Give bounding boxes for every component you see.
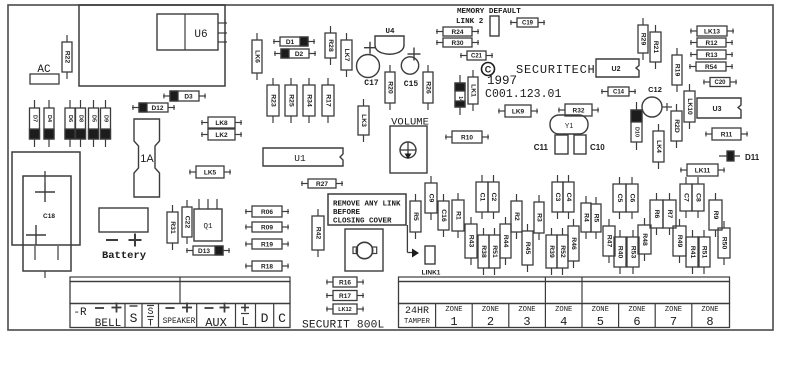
capacitor C15	[401, 48, 420, 90]
resistor R09	[245, 222, 289, 232]
svg-text:C17: C17	[364, 79, 379, 88]
svg-text:C8: C8	[695, 193, 702, 202]
link LK7	[341, 33, 352, 77]
resistor R49	[673, 219, 686, 263]
IC U2	[596, 59, 639, 77]
svg-text:R21: R21	[652, 41, 659, 54]
svg-text:R28: R28	[327, 39, 334, 52]
diode D12	[132, 103, 175, 112]
fuse F1 1A	[134, 119, 160, 197]
resistor R2	[511, 194, 522, 239]
diode D14	[455, 75, 465, 115]
svg-text:Q1: Q1	[203, 223, 213, 231]
svg-text:R12: R12	[706, 40, 718, 47]
IC U6	[157, 14, 227, 50]
capacitor C2	[488, 175, 499, 219]
crystal Y1	[550, 115, 588, 134]
svg-text:U6: U6	[194, 29, 207, 41]
capacitor C3	[552, 175, 563, 219]
svg-text:MEMORY DEFAULT: MEMORY DEFAULT	[457, 8, 521, 16]
svg-text:LK8: LK8	[215, 120, 228, 127]
resistor R41	[686, 230, 699, 274]
svg-text:LK9: LK9	[512, 108, 525, 115]
svg-text:LINK 2: LINK 2	[456, 18, 484, 26]
capacitor C16	[438, 194, 449, 237]
svg-text:C18: C18	[43, 213, 55, 220]
svg-text:C3: C3	[554, 193, 561, 202]
svg-text:R26: R26	[425, 81, 432, 94]
resistor R30	[436, 38, 479, 47]
svg-text:D6: D6	[67, 115, 73, 122]
svg-text:SPEAKER: SPEAKER	[163, 318, 196, 326]
label SECURIT 800L	[302, 320, 384, 332]
terminal block zones	[399, 277, 730, 328]
svg-text:R38: R38	[480, 245, 487, 258]
capacitor C4	[563, 175, 574, 219]
diode D5	[89, 100, 99, 147]
resistor R18	[245, 261, 289, 271]
svg-text:C6: C6	[629, 194, 636, 203]
capacitor C6	[626, 177, 638, 219]
capacitor C11	[534, 135, 568, 154]
link LK11	[680, 164, 725, 176]
svg-text:C5: C5	[616, 194, 623, 203]
svg-text:CLOSING COVER: CLOSING COVER	[333, 218, 392, 226]
svg-text:D3: D3	[184, 93, 193, 100]
AC terminal block	[30, 74, 59, 84]
svg-text:D4: D4	[46, 115, 52, 123]
diode D11	[719, 151, 760, 162]
svg-text:R44: R44	[502, 235, 509, 248]
label VOLUME	[391, 117, 429, 129]
capacitor C14	[601, 87, 636, 96]
svg-text:D12: D12	[152, 105, 164, 112]
resistor R45	[522, 224, 533, 272]
link LK13	[690, 26, 734, 36]
svg-text:R43: R43	[468, 235, 475, 248]
svg-text:5: 5	[597, 315, 604, 329]
svg-text:C12: C12	[648, 85, 662, 94]
resistor R22	[62, 35, 72, 79]
IC U3	[697, 98, 741, 118]
label C001.123.01	[485, 88, 562, 101]
svg-text:REMOVE ANY LINK: REMOVE ANY LINK	[333, 201, 401, 209]
terminal labels bell/speaker/aux	[73, 303, 286, 331]
svg-text:LK2: LK2	[215, 132, 228, 139]
svg-text:S: S	[130, 311, 138, 326]
resistor R26	[423, 65, 433, 110]
svg-text:R54: R54	[705, 64, 717, 71]
IC U1	[263, 148, 343, 166]
svg-text:R34: R34	[306, 94, 313, 107]
svg-text:R19: R19	[261, 241, 273, 248]
resistor R3	[534, 195, 544, 240]
svg-text:C11: C11	[534, 143, 549, 152]
resistor R6	[650, 193, 663, 235]
svg-text:D5: D5	[91, 115, 97, 122]
resistor R12	[690, 38, 733, 47]
diode D3	[163, 91, 206, 101]
svg-text:R39: R39	[548, 245, 555, 258]
link LINK1	[407, 225, 440, 277]
terminal labels zones	[404, 306, 719, 329]
svg-text:C4: C4	[565, 193, 572, 202]
svg-text:R50: R50	[721, 237, 728, 250]
link LK12	[326, 304, 364, 314]
capacitor C22	[182, 200, 192, 244]
capacitor C1	[476, 175, 488, 219]
svg-text:T: T	[147, 319, 153, 330]
resistor R2D	[671, 104, 682, 148]
resistor R54	[689, 62, 733, 71]
resistor R25	[285, 78, 297, 123]
copyright symbol	[482, 63, 495, 76]
svg-text:3: 3	[523, 315, 530, 329]
resistor R51	[489, 228, 500, 275]
resistor R28	[325, 26, 336, 65]
svg-text:R27: R27	[316, 181, 328, 188]
svg-text:R32: R32	[573, 107, 585, 114]
label MEMORY DEFAULT	[457, 8, 521, 16]
svg-text:6: 6	[633, 315, 640, 329]
terminal block bell/speaker/aux	[70, 277, 290, 328]
resistor R50	[718, 221, 730, 265]
resistor R4	[581, 196, 591, 239]
svg-text:LK3: LK3	[360, 114, 367, 127]
resistor R55	[698, 230, 710, 274]
diode D2	[274, 49, 316, 58]
diode D8	[76, 100, 86, 147]
svg-text:C: C	[485, 65, 492, 75]
svg-text:-R: -R	[73, 307, 87, 319]
svg-text:ZONE: ZONE	[555, 306, 572, 314]
svg-text:LK12: LK12	[338, 307, 351, 313]
svg-text:R13: R13	[706, 52, 718, 59]
resistor R43	[465, 217, 477, 265]
svg-text:R41: R41	[689, 246, 696, 259]
resistor R52	[557, 228, 568, 275]
svg-text:R19: R19	[674, 64, 681, 77]
resistor R32	[558, 104, 599, 116]
resistor R34	[303, 78, 315, 123]
svg-text:1A: 1A	[140, 153, 154, 165]
svg-text:R7: R7	[666, 210, 673, 219]
svg-text:R3: R3	[536, 213, 543, 222]
svg-text:R2: R2	[513, 212, 520, 221]
svg-text:R49: R49	[676, 235, 683, 248]
svg-text:LK7: LK7	[343, 49, 350, 62]
resistor R13	[690, 50, 733, 59]
svg-text:R9: R9	[712, 211, 719, 220]
svg-text:D8: D8	[78, 115, 84, 122]
svg-text:C10: C10	[590, 143, 605, 152]
svg-text:Y1: Y1	[565, 123, 574, 130]
capacitor C21	[460, 51, 493, 60]
diode D7	[30, 100, 40, 147]
svg-text:7: 7	[670, 315, 677, 329]
resistor R11	[705, 128, 748, 140]
link LK8	[201, 117, 242, 128]
resistor R42	[312, 209, 324, 257]
svg-text:1: 1	[450, 315, 457, 329]
link LK5	[189, 166, 231, 178]
svg-text:1997: 1997	[487, 74, 517, 88]
svg-text:R22: R22	[64, 51, 71, 64]
svg-text:ZONE: ZONE	[592, 306, 609, 314]
svg-text:LK11: LK11	[695, 167, 711, 174]
capacitor C19	[510, 18, 545, 27]
resistor R46	[568, 219, 579, 268]
resistor R29	[638, 18, 648, 60]
svg-text:AUX: AUX	[205, 316, 227, 330]
svg-text:24HR: 24HR	[405, 306, 429, 317]
regulator U4	[375, 28, 404, 54]
capacitor C7	[680, 177, 692, 218]
capacitor C8	[692, 177, 704, 218]
AC terminal label	[37, 64, 51, 76]
resistor R44	[500, 217, 511, 265]
svg-text:SECURITECH: SECURITECH	[516, 63, 596, 77]
capacitor C10	[574, 135, 605, 154]
svg-text:ZONE: ZONE	[628, 306, 645, 314]
svg-text:ZONE: ZONE	[518, 306, 535, 314]
svg-text:LK13: LK13	[704, 28, 720, 35]
svg-text:SECURIT 800L: SECURIT 800L	[302, 320, 384, 332]
svg-text:Battery: Battery	[102, 250, 147, 262]
svg-text:R09: R09	[261, 224, 273, 231]
resistor R1	[452, 193, 464, 238]
svg-text:C15: C15	[404, 80, 419, 89]
svg-text:R45: R45	[524, 242, 531, 255]
transformer block	[79, 5, 225, 86]
resistor R10	[445, 131, 489, 143]
diode D13	[186, 246, 230, 255]
svg-text:4: 4	[560, 315, 567, 329]
diode D1	[273, 37, 315, 46]
svg-text:R23: R23	[270, 94, 277, 107]
svg-text:LK5: LK5	[204, 169, 217, 176]
link LK10	[684, 84, 695, 129]
svg-text:R51: R51	[491, 245, 498, 258]
svg-text:R40: R40	[617, 246, 624, 259]
resistor R5	[410, 194, 421, 239]
svg-text:R24: R24	[452, 29, 464, 36]
svg-text:R18: R18	[261, 263, 273, 270]
svg-text:R47: R47	[606, 235, 613, 248]
svg-text:ZONE: ZONE	[701, 306, 718, 314]
svg-text:R4: R4	[583, 213, 590, 222]
potentiometer VR1	[390, 126, 427, 173]
svg-text:TAMPER: TAMPER	[404, 318, 431, 326]
svg-text:R17: R17	[339, 293, 351, 300]
svg-text:LK10: LK10	[686, 98, 693, 115]
svg-text:D2: D2	[295, 51, 304, 58]
resistor R06	[245, 206, 289, 217]
svg-text:D10: D10	[634, 127, 640, 137]
transistor Q1	[194, 199, 222, 241]
resistor R20	[385, 65, 395, 110]
diode D6	[65, 100, 75, 147]
capacitor C12	[642, 85, 672, 117]
link LK3	[358, 99, 369, 142]
diode D9	[101, 100, 111, 147]
svg-text:C14: C14	[613, 90, 625, 96]
link LK9	[498, 105, 538, 117]
svg-text:2: 2	[487, 315, 494, 329]
svg-text:D7: D7	[32, 115, 38, 122]
link LK6	[252, 33, 262, 80]
svg-text:R16: R16	[339, 279, 351, 286]
svg-text:C21: C21	[471, 54, 483, 60]
svg-text:U3: U3	[713, 106, 722, 113]
resistor R19	[672, 48, 682, 92]
resistor R16	[326, 277, 364, 287]
capacitor C9	[425, 176, 437, 220]
label SECURITECH	[516, 63, 596, 77]
link LINK2 jumper	[490, 16, 499, 36]
svg-text:D: D	[261, 311, 269, 326]
resistor R27	[301, 179, 343, 188]
resistor R40	[614, 230, 626, 274]
svg-text:ZONE: ZONE	[482, 306, 499, 314]
svg-text:ZONE: ZONE	[445, 306, 462, 314]
svg-text:C001.123.01: C001.123.01	[485, 88, 562, 101]
svg-text:C1: C1	[479, 193, 486, 202]
capacitor C20	[703, 78, 737, 87]
warning text box	[328, 194, 406, 226]
svg-text:R10: R10	[461, 134, 473, 141]
resistor R9	[709, 193, 722, 237]
sounder LS1	[345, 229, 383, 271]
svg-text:R42: R42	[315, 227, 322, 240]
svg-text:C: C	[278, 311, 286, 326]
svg-text:U2: U2	[612, 66, 621, 73]
resistor R39	[546, 228, 557, 275]
resistor R31	[167, 205, 178, 250]
svg-text:C2: C2	[490, 193, 497, 202]
link LK4	[653, 124, 664, 169]
svg-text:8: 8	[706, 315, 713, 329]
resistor R17	[326, 291, 364, 301]
svg-text:D9: D9	[103, 115, 109, 122]
svg-text:U1: U1	[294, 153, 306, 164]
capacitor C17	[357, 42, 380, 88]
svg-text:D1: D1	[286, 39, 295, 46]
svg-text:LK4: LK4	[655, 140, 662, 153]
svg-text:R06: R06	[261, 209, 273, 216]
svg-text:R25: R25	[288, 94, 295, 107]
svg-text:BEFORE: BEFORE	[333, 209, 361, 217]
svg-text:R52: R52	[559, 245, 566, 258]
svg-text:R46: R46	[570, 237, 577, 250]
battery connector	[99, 208, 148, 262]
resistor R38	[478, 228, 489, 275]
resistor R7	[663, 193, 676, 235]
svg-text:D11: D11	[745, 153, 760, 162]
svg-text:C20: C20	[714, 80, 726, 86]
svg-text:LK6: LK6	[254, 50, 261, 63]
svg-text:R5: R5	[593, 214, 600, 223]
diode D10	[631, 102, 642, 150]
resistor R21	[650, 25, 661, 69]
resistor R48	[638, 218, 651, 261]
capacitor C5	[613, 177, 626, 219]
svg-text:R1: R1	[455, 211, 462, 220]
resistor R24	[436, 27, 479, 36]
svg-text:R5: R5	[412, 212, 419, 221]
svg-text:C22: C22	[184, 216, 191, 229]
link LK2	[201, 129, 242, 140]
resistor R47	[603, 219, 615, 263]
svg-text:U4: U4	[385, 28, 395, 36]
svg-text:C9: C9	[428, 194, 435, 203]
svg-text:BELL: BELL	[95, 318, 121, 330]
diode D4	[44, 100, 54, 147]
resistor R53	[627, 230, 639, 274]
svg-text:R51: R51	[701, 246, 708, 259]
svg-text:LK1: LK1	[470, 84, 477, 97]
resistor R19	[245, 239, 289, 249]
svg-text:ZONE: ZONE	[665, 306, 682, 314]
capacitor C18	[12, 152, 80, 278]
svg-text:R6: R6	[653, 210, 660, 219]
svg-text:R2D: R2D	[673, 119, 680, 133]
svg-text:LINK1: LINK1	[422, 270, 441, 277]
svg-text:R48: R48	[641, 233, 648, 246]
resistor R23	[267, 78, 279, 123]
svg-text:D13: D13	[198, 248, 210, 255]
svg-text:C19: C19	[522, 21, 534, 27]
svg-text:R29: R29	[640, 33, 647, 46]
label 1997	[487, 74, 517, 88]
svg-text:R17: R17	[325, 94, 332, 107]
svg-text:R53: R53	[630, 246, 637, 259]
svg-text:C7: C7	[683, 193, 690, 202]
svg-text:C16: C16	[440, 209, 447, 222]
svg-text:R31: R31	[169, 221, 176, 234]
resistor R5b	[591, 197, 601, 239]
resistor R17	[322, 78, 334, 123]
link LK1	[468, 70, 478, 111]
svg-text:R20: R20	[387, 81, 394, 94]
svg-text:L: L	[241, 315, 248, 329]
label LINK 2	[456, 18, 484, 26]
svg-text:R30: R30	[452, 40, 464, 47]
svg-text:R11: R11	[721, 131, 733, 138]
